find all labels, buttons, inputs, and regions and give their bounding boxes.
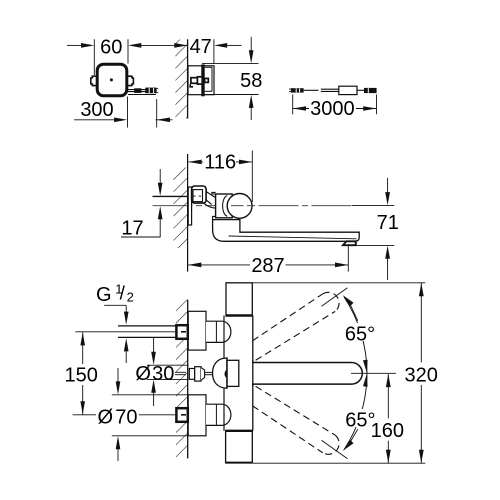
bottom inlet centerline (150 bottom ref / O70 label line) — [73, 414, 96, 416]
G1/2 leader — [104, 304, 126, 306]
control box body — [97, 64, 127, 96]
dim 47 arrows — [174, 43, 187, 48]
bottom escutcheon — [188, 395, 206, 436]
side box screw — [191, 78, 198, 84]
svg-text:320: 320 — [405, 364, 438, 386]
wall face line top view — [187, 39, 189, 118]
dim 47 extension line right — [213, 39, 215, 64]
dim 287 extension right — [347, 246, 349, 272]
dim 71 arrows — [387, 178, 389, 193]
svg-text:60: 60 — [100, 37, 122, 59]
body bottom block — [226, 431, 253, 463]
top dome cap — [206, 321, 231, 342]
dim 300 extension lines — [127, 97, 129, 128]
top escutcheon — [188, 311, 206, 350]
cable left connector — [291, 88, 304, 92]
svg-text:65°: 65° — [345, 324, 375, 346]
supply pipe top line — [153, 195, 192, 197]
bottom inlet wall nut — [176, 408, 187, 422]
side box outline — [188, 66, 214, 95]
top inlet pipe — [118, 325, 177, 327]
spout hub / elbow outline — [213, 220, 360, 242]
aerator — [343, 241, 356, 245]
label 160 — [371, 420, 405, 440]
dim 287 dimension line — [188, 264, 250, 266]
65 deg upper leader — [350, 303, 358, 321]
svg-text:116: 116 — [204, 151, 236, 173]
body plate right edge over capsule — [252, 360, 254, 387]
middle hub connector at wall — [189, 369, 194, 380]
svg-text:2: 2 — [127, 290, 134, 305]
swivel arc — [344, 297, 367, 450]
svg-text:G: G — [96, 284, 112, 306]
dim O70 arrows — [117, 368, 119, 382]
cable right connector — [364, 88, 377, 93]
dim 116 extension right — [251, 151, 253, 203]
side box inner lines right part — [205, 66, 212, 68]
svg-text:150: 150 — [65, 365, 98, 387]
side box bold mounting bar — [201, 64, 204, 96]
label O30 — [135, 366, 175, 379]
svg-text:/: / — [120, 284, 126, 305]
lower spout tip center tick — [322, 440, 348, 459]
svg-text:Ø70: Ø70 — [97, 406, 137, 428]
hub sensor dot — [225, 370, 228, 377]
dim 58 reference lines — [202, 63, 259, 65]
svg-text:160: 160 — [371, 420, 404, 442]
outlet reference line (71 bottom ref) — [356, 244, 394, 246]
svg-text:71: 71 — [377, 212, 399, 234]
control box cable — [127, 89, 146, 91]
hub top step — [213, 216, 216, 219]
svg-text:17: 17 — [121, 217, 143, 239]
swivel arc meeting arrows — [363, 360, 368, 387]
label 320 — [405, 364, 439, 384]
upper spout tip center tick — [322, 288, 348, 307]
label 65 lower — [343, 409, 378, 427]
svg-text:47: 47 — [190, 36, 212, 58]
dim 47 tail line — [226, 44, 242, 46]
sensor head circle — [227, 194, 252, 219]
wall escutcheon side view — [188, 187, 191, 225]
dim 160 dimension line — [387, 374, 389, 419]
wall hatch top view — [175, 40, 187, 119]
wall hatch bottom view — [176, 300, 188, 458]
dashed swivel spout lower — [253, 406, 323, 453]
top inlet wall nut — [176, 325, 187, 339]
svg-text:Ø30: Ø30 — [135, 363, 174, 385]
spout hub D-shape — [213, 358, 228, 388]
cylinder top step — [212, 192, 216, 194]
dim 116 dimension line — [188, 161, 203, 163]
cable wire segments — [304, 89, 319, 91]
wall hatch middle view — [174, 168, 188, 249]
label 150 — [64, 365, 99, 383]
dim 17 arrows + leader — [159, 169, 161, 184]
dashed swivel spout upper — [253, 292, 340, 454]
svg-text:3000: 3000 — [310, 98, 355, 120]
dim O30 arrows — [153, 338, 155, 353]
wall face line middle view (also ext for 116/287) — [187, 154, 189, 272]
sensor barrel arc — [223, 196, 228, 217]
centerline dash inside circle — [231, 205, 244, 207]
O30 leader double line — [173, 371, 187, 373]
top inlet centerline (150 top ref) — [75, 331, 177, 333]
dim 150 dimension line — [82, 332, 84, 364]
S-union center dashes — [192, 195, 196, 197]
dim O70 extension lines — [112, 394, 188, 396]
spout axis line — [351, 372, 396, 374]
dim 3000 extension lines — [292, 95, 294, 115]
control box right clip — [127, 76, 134, 85]
side box bracket hook — [190, 84, 193, 87]
control box center dot — [110, 78, 113, 81]
spout inner taper line — [229, 236, 357, 239]
svg-text:300: 300 — [80, 99, 113, 121]
dim 320 reference lines — [253, 282, 425, 284]
65 deg lower leader — [350, 429, 358, 443]
dim 320 dimension line — [420, 283, 422, 362]
wall face line bottom view — [187, 300, 189, 459]
svg-text:287: 287 — [251, 255, 284, 277]
S-union body — [192, 186, 207, 203]
control box left clip — [91, 76, 98, 85]
svg-text:58: 58 — [240, 70, 262, 92]
control box cable connector plug — [134, 88, 141, 93]
dim 58 arrows — [250, 37, 252, 51]
dim O30 extension lines — [147, 364, 189, 366]
solid spout capsule — [252, 363, 362, 385]
S-union link to body — [204, 192, 216, 209]
dim 300 dimension line — [74, 119, 115, 121]
body top block — [226, 283, 252, 316]
dim 60 extension line left — [93, 39, 95, 75]
label 65 upper — [343, 323, 378, 341]
dim 3000 dimension line — [293, 108, 309, 110]
cable inline box — [339, 86, 357, 94]
faucet centerline (dashed) — [153, 205, 353, 207]
faucet body cylinder — [216, 194, 233, 218]
dim 60 dimension line + arrows — [67, 44, 82, 46]
bottom dome cap — [206, 404, 231, 425]
centerline right segment (71 top ref) — [352, 205, 394, 207]
dim 60 extension line right — [127, 39, 129, 63]
body plate edges — [223, 316, 225, 431]
